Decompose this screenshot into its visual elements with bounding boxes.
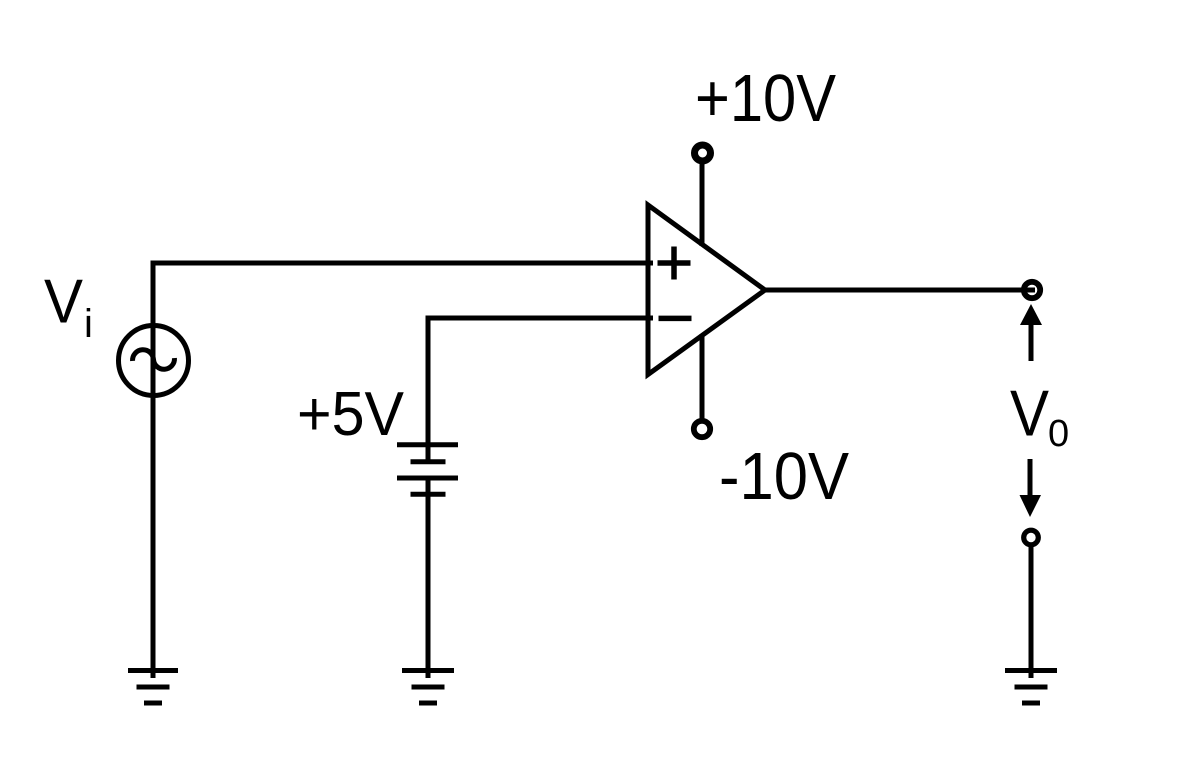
svg-text:+10V: +10V [695, 61, 836, 136]
wire from source top to op-amp + input [153, 263, 653, 678]
ground for output [1005, 671, 1057, 704]
lower output terminal circle [1024, 530, 1039, 545]
battery V2 plates [397, 445, 458, 495]
output wire [765, 288, 1035, 293]
V0 down arrow head [1020, 495, 1042, 517]
output terminal node circle [1024, 282, 1040, 298]
wire from battery to op-amp - input [428, 318, 653, 462]
V0 up arrow head [1020, 304, 1042, 325]
svg-text:i: i [84, 302, 93, 346]
op-amp U1 triangle [648, 205, 765, 375]
AC source sine symbol [132, 348, 175, 372]
ground for battery [402, 671, 454, 704]
wire from battery to ground [426, 478, 431, 678]
wire from lower terminal to ground [1029, 547, 1034, 678]
V0 up arrow shaft [1029, 323, 1034, 361]
op-amp + input marker [658, 247, 691, 280]
+10V terminal circle [695, 145, 711, 161]
V0 down arrow shaft [1028, 459, 1033, 496]
svg-text:+5V: +5V [297, 379, 404, 449]
op-amp - input marker [659, 316, 692, 322]
svg-text:V: V [44, 267, 84, 336]
AC source V1 circle [119, 326, 189, 396]
svg-text:-10V: -10V [719, 439, 849, 514]
wire from +10V terminal to op-amp top [700, 160, 705, 246]
wire from op-amp bottom to -10V terminal [700, 334, 705, 420]
-10V terminal circle [694, 421, 710, 437]
ground for source [128, 671, 178, 704]
svg-text:V: V [1010, 377, 1050, 450]
svg-text:0: 0 [1048, 413, 1069, 455]
